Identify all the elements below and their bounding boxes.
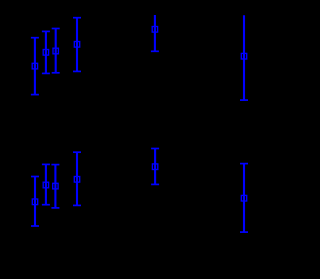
error bar 6 bottom panel — [240, 164, 248, 233]
error bar 2 top panel — [42, 31, 50, 73]
error bar 1 top panel — [31, 38, 39, 95]
error bar 2 bottom panel — [42, 164, 50, 204]
error bar 4 bottom panel — [73, 152, 81, 205]
error bar 5 top panel (clipped at top axis) — [151, 15, 159, 51]
error bar 1 bottom panel — [31, 177, 39, 227]
error bar 3 top panel — [52, 29, 60, 73]
error bar 5 bottom panel — [151, 149, 159, 185]
error bar 4 top panel — [73, 18, 81, 72]
error bar 6 top panel (clipped at top axis) — [240, 15, 248, 100]
error bar 3 bottom panel — [51, 165, 59, 208]
